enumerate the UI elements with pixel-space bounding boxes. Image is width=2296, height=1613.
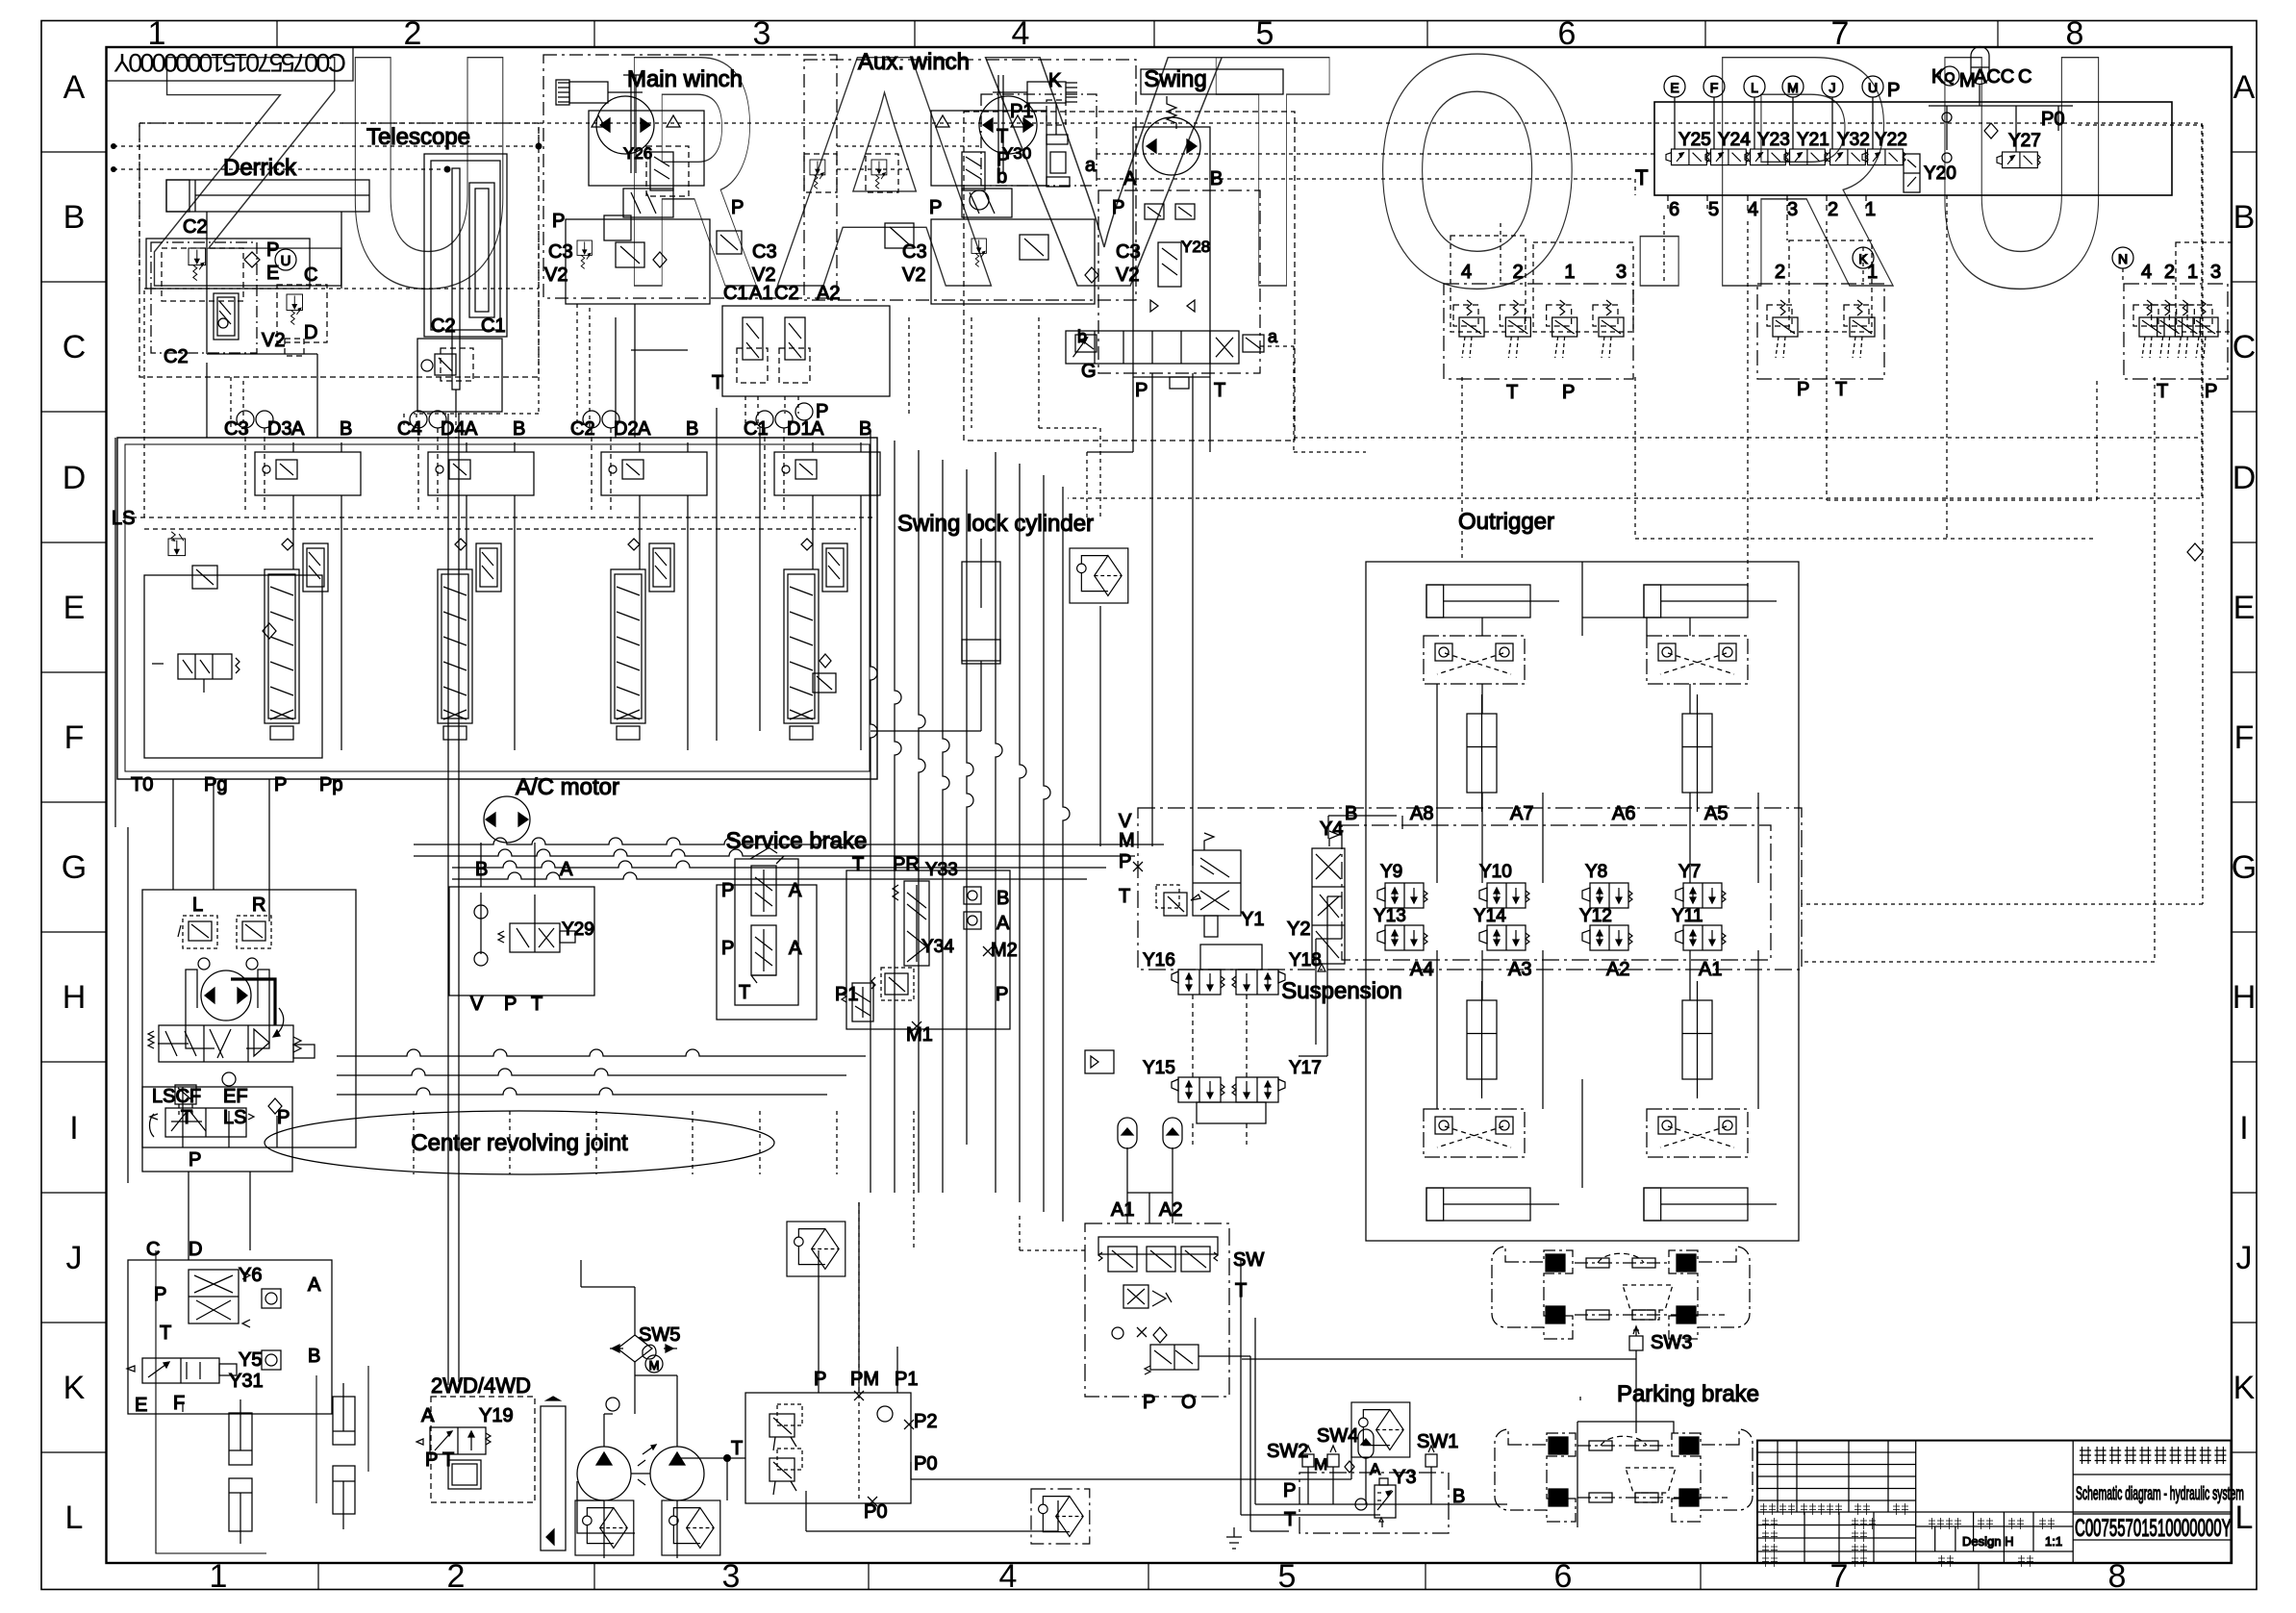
svg-text:C00755701510000000Y: C00755701510000000Y [2075, 1515, 2232, 1542]
svg-text:V2: V2 [902, 265, 925, 286]
outrigger vertical cylinder bottom-left [1467, 1000, 1497, 1079]
wire accumulator feeds [1127, 1193, 1173, 1223]
drawing number text [2075, 1515, 2232, 1542]
steering relief bottom [175, 1085, 196, 1118]
svg-text:E: E [2233, 590, 2256, 626]
inlet section pressure controls [144, 575, 322, 758]
svg-text:2WD/4WD: 2WD/4WD [431, 1374, 531, 1398]
svg-text:E: E [1670, 80, 1678, 95]
wire dashed from bank bottom across down [1748, 221, 2097, 587]
svg-text:Pg: Pg [204, 774, 227, 795]
accumulator right [1163, 1118, 1182, 1148]
small manifold block mid [1085, 1050, 1114, 1073]
svg-text:P: P [552, 211, 565, 232]
bottom ruler band ticks [318, 1563, 1979, 1590]
brake pedal treadle [750, 845, 777, 859]
svg-text:F: F [1710, 80, 1719, 95]
svg-text:Y22: Y22 [1875, 130, 1907, 150]
gear cylinder 2 [229, 1478, 252, 1531]
svg-text:Y1: Y1 [1241, 909, 1264, 930]
svg-text:Y14: Y14 [1474, 906, 1506, 926]
brake valve upper stack [751, 856, 784, 916]
swing lock filter [1070, 548, 1128, 603]
main winch motor [596, 96, 654, 154]
wire dashed section pilot stubs [231, 304, 798, 429]
svg-text:C: C [2233, 329, 2257, 365]
svg-text:L: L [192, 895, 203, 916]
main winch port plate [566, 219, 710, 304]
row letters left band [62, 69, 87, 1536]
wire SW block to parking [1198, 1356, 1289, 1531]
rear axle with brakes [1492, 1247, 1573, 1339]
wire bottom tank bus [806, 1491, 1058, 1531]
svg-text:T: T [1635, 165, 1648, 189]
check diamonds in manifold [1984, 123, 1998, 139]
svg-text:4: 4 [1748, 199, 1758, 220]
company name CJK simulated [2080, 1447, 2091, 1464]
winch select manifold C1 A1 C2 A2 [722, 306, 890, 396]
svg-text:PM: PM [850, 1369, 879, 1390]
section D1 main spool [784, 569, 819, 723]
swing label box [1141, 69, 1283, 94]
section D4 main spool [438, 569, 472, 723]
wire T P drop from manifold [717, 408, 760, 741]
block wires [1308, 1458, 1431, 1504]
relief manifold 4-2-1-3 [1444, 284, 1633, 379]
wire long vertical dashed center [859, 1174, 914, 1500]
svg-text:P0: P0 [914, 1453, 937, 1474]
svg-text:P: P [277, 1107, 290, 1128]
svg-text:T: T [1214, 380, 1225, 401]
svg-text:F: F [64, 719, 85, 756]
watermark ZURAVTO.RU outline letters [144, 0, 2114, 357]
wire E drop [154, 1402, 183, 1412]
svg-text:P0: P0 [2041, 109, 2064, 130]
wire P0 line to filter right [911, 1431, 1351, 1479]
wire port U drop [1872, 97, 1874, 149]
check diamond aux [1085, 267, 1098, 283]
svg-text:C: C [146, 1239, 160, 1260]
svg-text:Y21: Y21 [1797, 130, 1829, 150]
swing lock cylinder body [962, 562, 1000, 664]
circled port F [1703, 76, 1725, 97]
circled N node above section D3 [237, 411, 254, 428]
wire aux P to K [1039, 428, 1100, 517]
circled K node [1853, 247, 1874, 268]
svg-text:EF: EF [223, 1086, 248, 1107]
svg-text:ACC: ACC [1974, 66, 2014, 88]
swing pilot directional valve [1066, 331, 1239, 364]
svg-text:Y20: Y20 [1924, 164, 1956, 184]
aux port plate [931, 219, 1095, 304]
check diamond in block [1345, 1461, 1354, 1473]
thick pilot line in steering [231, 979, 275, 1025]
svg-text:Swing: Swing [1144, 66, 1206, 92]
svg-text:C1: C1 [723, 283, 748, 304]
svg-text:B: B [2233, 199, 2256, 236]
aux brake valve Y30 [962, 152, 985, 190]
svg-text:P: P [189, 1149, 201, 1171]
svg-text:P: P [425, 1449, 438, 1471]
accumulator left [1118, 1118, 1137, 1148]
wire swing drops [1087, 373, 1210, 866]
svg-text:3: 3 [2210, 262, 2221, 283]
Main winch subsystem boundary [543, 55, 837, 298]
twin overcenter valve top [1098, 1237, 1218, 1254]
suspension lower plate [1197, 1102, 1266, 1123]
svg-text:LS: LS [223, 1107, 246, 1128]
svg-text:C3: C3 [902, 241, 927, 263]
svg-text:K: K [63, 1370, 86, 1406]
svg-text:Y33: Y33 [925, 860, 958, 880]
svg-text:2: 2 [1775, 262, 1785, 283]
svg-text:A: A [465, 418, 478, 440]
svg-text:Y13: Y13 [1374, 906, 1406, 926]
small relief right of swing valve [1243, 335, 1264, 352]
svg-text:K: K [1048, 70, 1062, 91]
Derrick subsystem boundary [139, 123, 539, 377]
svg-text:1: 1 [2187, 262, 2198, 283]
svg-text:Y23: Y23 [1757, 130, 1790, 150]
svg-text:C2: C2 [431, 315, 456, 337]
pressure filter above manifold [787, 1222, 845, 1276]
circled U port [275, 249, 296, 270]
svg-text:Y10: Y10 [1479, 862, 1512, 882]
pilot valve block C/D [277, 285, 327, 342]
svg-text:Main winch: Main winch [627, 66, 743, 92]
svg-text:Outrigger: Outrigger [1458, 509, 1554, 535]
svg-text:B: B [340, 418, 352, 440]
shuttle block bottom [604, 215, 631, 240]
wire horizontal bus mid [414, 838, 1164, 844]
svg-text:P: P [2205, 381, 2217, 402]
telescope cylinder assembly [424, 154, 507, 337]
section D2 pressure compensator valve [649, 543, 674, 592]
dashed boundary around swing and pilot block [964, 112, 1295, 441]
wire parking supply from SW3 [1579, 1397, 1581, 1400]
svg-text:Y5: Y5 [239, 1349, 262, 1371]
svg-text:Q: Q [1945, 69, 1955, 85]
svg-text:Schematic diagram - hydraulic: Schematic diagram - hydraulic system [2076, 1484, 2244, 1504]
section D4 wires [417, 428, 419, 510]
outlet relief right end [813, 673, 836, 693]
circled I node above section D4 [410, 411, 427, 428]
section D2 bridge and compensator [601, 452, 707, 495]
svg-text:D4: D4 [441, 418, 466, 440]
svg-text:M: M [1787, 80, 1799, 95]
svg-text:V: V [983, 0, 1226, 357]
svg-text:Y26: Y26 [623, 144, 652, 163]
anti-cavitation checks [1150, 300, 1158, 312]
swing brake release valve Y28 [1158, 242, 1181, 287]
wires a/c motor [481, 843, 535, 887]
svg-text:SW: SW [1233, 1249, 1264, 1271]
check valve diamond [244, 252, 260, 267]
svg-text:C2: C2 [183, 216, 208, 238]
wire solid main winch drop to bank [616, 304, 688, 438]
svg-text:U: U [341, 0, 517, 357]
svg-text:U: U [1868, 80, 1878, 95]
svg-text:E: E [63, 590, 86, 626]
circled L node above section D2 [602, 411, 619, 428]
small relief left of swing valve [1075, 335, 1097, 352]
wire port F drop [1713, 97, 1715, 149]
valve in K block [1047, 100, 1066, 125]
svg-text:T: T [852, 854, 864, 875]
outrigger horizontal cylinder top-left [1426, 585, 1530, 617]
section D2 wires [591, 428, 593, 510]
left row band ticks [41, 152, 107, 1452]
circled port J [1822, 76, 1843, 97]
svg-text:T: T [531, 994, 542, 1015]
svg-text:2: 2 [447, 1558, 466, 1595]
check ball above pumps [606, 1398, 619, 1411]
svg-text:1: 1 [210, 1558, 228, 1595]
svg-text:P: P [929, 197, 942, 218]
swing motor case [1133, 127, 1210, 377]
svg-text:P: P [1283, 1480, 1296, 1501]
svg-text:Y9: Y9 [1380, 862, 1402, 882]
svg-text:D: D [189, 1239, 202, 1260]
svg-text:4: 4 [999, 1558, 1018, 1595]
section D3 main spool [265, 569, 299, 723]
tandem pump 2 [650, 1447, 704, 1500]
svg-text:J: J [1829, 80, 1836, 95]
svg-text:Service brake: Service brake [726, 828, 868, 854]
wire outrigger to suspension links [1299, 896, 1342, 1056]
svg-text:A: A [789, 880, 802, 901]
svg-text:A6: A6 [1612, 803, 1635, 824]
svg-text:O: O [1372, 0, 1583, 356]
svg-text:Suspension: Suspension [1281, 978, 1401, 1004]
right row band ticks [2232, 152, 2257, 1452]
section D1 pressure compensator valve [822, 543, 847, 592]
relief cartridge [1552, 300, 1577, 358]
svg-text:A: A [638, 418, 651, 440]
inlet pilot valve [178, 654, 232, 679]
svg-text:D1: D1 [787, 418, 812, 440]
wire pump outlet up [604, 1375, 677, 1447]
check squares [964, 887, 981, 904]
column numbers top [148, 15, 2084, 52]
tandem pump 1 [577, 1447, 631, 1500]
outrigger valve strip boundary [1342, 825, 1771, 960]
svg-text:Y25: Y25 [1678, 130, 1711, 150]
wire junction dots top [111, 143, 116, 149]
relief 2 in manifold [770, 1449, 802, 1495]
svg-text:Y11: Y11 [1672, 906, 1703, 926]
svg-text:Y34: Y34 [921, 937, 954, 957]
svg-text:P: P [1112, 197, 1124, 218]
pump suction lines [577, 1481, 677, 1558]
circled port E [1664, 76, 1685, 97]
svg-text:T: T [739, 982, 750, 1003]
main winch brake valve Y26 [650, 152, 673, 190]
relief cartridge [2139, 300, 2164, 358]
svg-text:T: T [2157, 381, 2168, 402]
wire sw block feeds [1127, 1193, 1173, 1223]
axle lock block boundary SW [1085, 1223, 1229, 1397]
svg-text:M2: M2 [991, 940, 1018, 961]
wire left edge verticals tall [115, 438, 128, 1183]
check valve in manifold [877, 1406, 893, 1422]
title block right cells [2073, 1474, 2232, 1540]
outrigger vertical cylinder top-left [1467, 714, 1497, 793]
wire derrick C2 down [206, 289, 208, 354]
svg-text:A: A [997, 913, 1010, 934]
a/c check valve [474, 905, 488, 919]
svg-text:Y8: Y8 [1585, 862, 1607, 882]
LS dashed line across bank [123, 517, 873, 518]
section D3 pressure compensator valve [303, 543, 328, 592]
circled I node above section D3 [256, 411, 273, 428]
wire dashed right bank drop to manifolds [1501, 195, 2123, 539]
outrigger horizontal cylinder bottom-right [1644, 1188, 1748, 1221]
gear cylinder 1 [229, 1413, 252, 1465]
circled n node [970, 190, 989, 210]
svg-text:Design H: Design H [1962, 1534, 2013, 1549]
circled port U [1862, 76, 1883, 97]
fan motor circle [645, 1355, 663, 1373]
svg-text:T: T [731, 1438, 743, 1459]
brake valve lower stack [751, 925, 776, 983]
tank symbol left [1226, 1527, 1242, 1549]
svg-text:P: P [1119, 851, 1131, 872]
svg-text:A1: A1 [749, 283, 772, 304]
wire P0 dashed long right [2078, 125, 2203, 904]
outrigger horizontal cylinder top-right [1644, 585, 1748, 617]
return filter left [575, 1500, 634, 1555]
svg-text:Pp: Pp [319, 774, 342, 795]
svg-text:5: 5 [1708, 199, 1719, 220]
svg-text:D: D [2233, 460, 2257, 496]
svg-text:C3: C3 [752, 241, 777, 263]
pressure valve mid [616, 242, 644, 267]
title block revision table [1757, 1452, 2231, 1551]
aux counterbalance [962, 189, 1012, 217]
steering anti-shock checks [198, 958, 210, 970]
wire pilot supply dashed top boundary [139, 123, 2202, 498]
svg-text:Y2: Y2 [1287, 919, 1310, 940]
transfer case actuator bar [541, 1406, 566, 1550]
svg-text:P: P [1797, 379, 1809, 400]
svg-text:Y3: Y3 [1393, 1467, 1416, 1488]
section D3 wires [244, 428, 246, 510]
svg-text:A: A [560, 859, 573, 880]
pilot valve right [785, 317, 805, 360]
svg-text:U: U [1930, 0, 2114, 357]
svg-text:1:1: 1:1 [2045, 1534, 2062, 1549]
aux inlet check [885, 223, 914, 248]
svg-text:K: K [2233, 1370, 2256, 1406]
svg-text:P1: P1 [835, 984, 858, 1005]
shuttle checks A B [262, 1289, 281, 1308]
wire bus drops to center joint [870, 1145, 943, 1193]
circled N node [2112, 247, 2133, 268]
wire right bank P0 drop [1802, 377, 2155, 962]
a/c motor symbol [484, 796, 530, 843]
swing valve block boundary [1098, 190, 1260, 373]
svg-text:P1: P1 [895, 1369, 918, 1390]
svg-text:P: P [996, 984, 1008, 1005]
reducing valve bottom SW [1145, 1345, 1198, 1374]
wire fan line [581, 1260, 635, 1414]
steering priority block housing [142, 890, 356, 1147]
wire LSCF to bottom blocks [189, 1172, 250, 1260]
gear shift actuator [448, 1460, 481, 1489]
check diamond steering [268, 1098, 282, 1114]
svg-text:O: O [1181, 1392, 1197, 1413]
svg-text:A: A [421, 1405, 435, 1426]
outrigger lock box bottom-left [1424, 1109, 1525, 1157]
gearbox control block housing [128, 1260, 332, 1414]
svg-text:T: T [997, 126, 1008, 147]
svg-text:Derrick: Derrick [223, 155, 297, 181]
svg-text:2: 2 [1513, 262, 1524, 283]
svg-text:P: P [731, 197, 744, 218]
svg-text:a: a [1085, 155, 1097, 176]
svg-text:N: N [2118, 251, 2128, 266]
relief cartridge left of aux [804, 154, 837, 192]
title block middle table [1916, 1526, 2073, 1551]
relief at P right [717, 231, 742, 254]
svg-text:M: M [1119, 830, 1135, 851]
column numbers bottom [210, 1558, 2127, 1595]
circled port L [1744, 76, 1765, 97]
aux relief pair [971, 239, 986, 266]
svg-text:SW1: SW1 [1417, 1431, 1458, 1452]
section D1 wires [764, 428, 766, 510]
svg-text:P: P [721, 938, 734, 959]
svg-text:A: A [1370, 1460, 1381, 1478]
svg-text:b: b [1077, 327, 1087, 346]
svg-text:P2: P2 [914, 1411, 937, 1432]
svg-text:Y18: Y18 [1289, 950, 1322, 970]
svg-text:M1: M1 [906, 1024, 933, 1046]
svg-text:C2: C2 [774, 283, 799, 304]
svg-text:PR: PR [893, 854, 920, 875]
wire T line bottom [673, 1458, 745, 1500]
pump shaft [631, 1473, 650, 1474]
svg-text:A3: A3 [1508, 959, 1531, 980]
svg-text:A1: A1 [1111, 1199, 1134, 1221]
svg-text:D: D [63, 460, 87, 496]
pressure reducing valve small [1156, 885, 1200, 916]
swing brake spring [1167, 96, 1176, 129]
svg-text:b: b [997, 166, 1007, 188]
svg-text:U: U [281, 253, 291, 269]
wire telescope cylinder drop [448, 414, 459, 1385]
derrick relief valve [189, 248, 206, 281]
check row [1112, 1327, 1123, 1339]
svg-text:G: G [1081, 361, 1097, 382]
svg-text:Y19: Y19 [479, 1405, 514, 1426]
suction filter mid [1031, 1489, 1090, 1544]
derrick counterbalance cartridge [214, 293, 239, 340]
telescope valve box [417, 339, 502, 412]
svg-text:T: T [1214, 0, 1331, 356]
Aux winch subsystem boundary [804, 60, 1136, 300]
accumulator small top [1971, 47, 1989, 85]
wire steering to LSCF [183, 1087, 277, 1147]
wire suspension drops [1193, 995, 1247, 1145]
center revolving joint ellipse [265, 1111, 774, 1174]
svg-text:a: a [1268, 327, 1278, 346]
flow amplifier block LSCF EF [142, 1087, 292, 1172]
svg-text:C1: C1 [481, 315, 506, 337]
section D3 bridge and compensator [255, 452, 361, 495]
svg-text:A: A [789, 938, 802, 959]
